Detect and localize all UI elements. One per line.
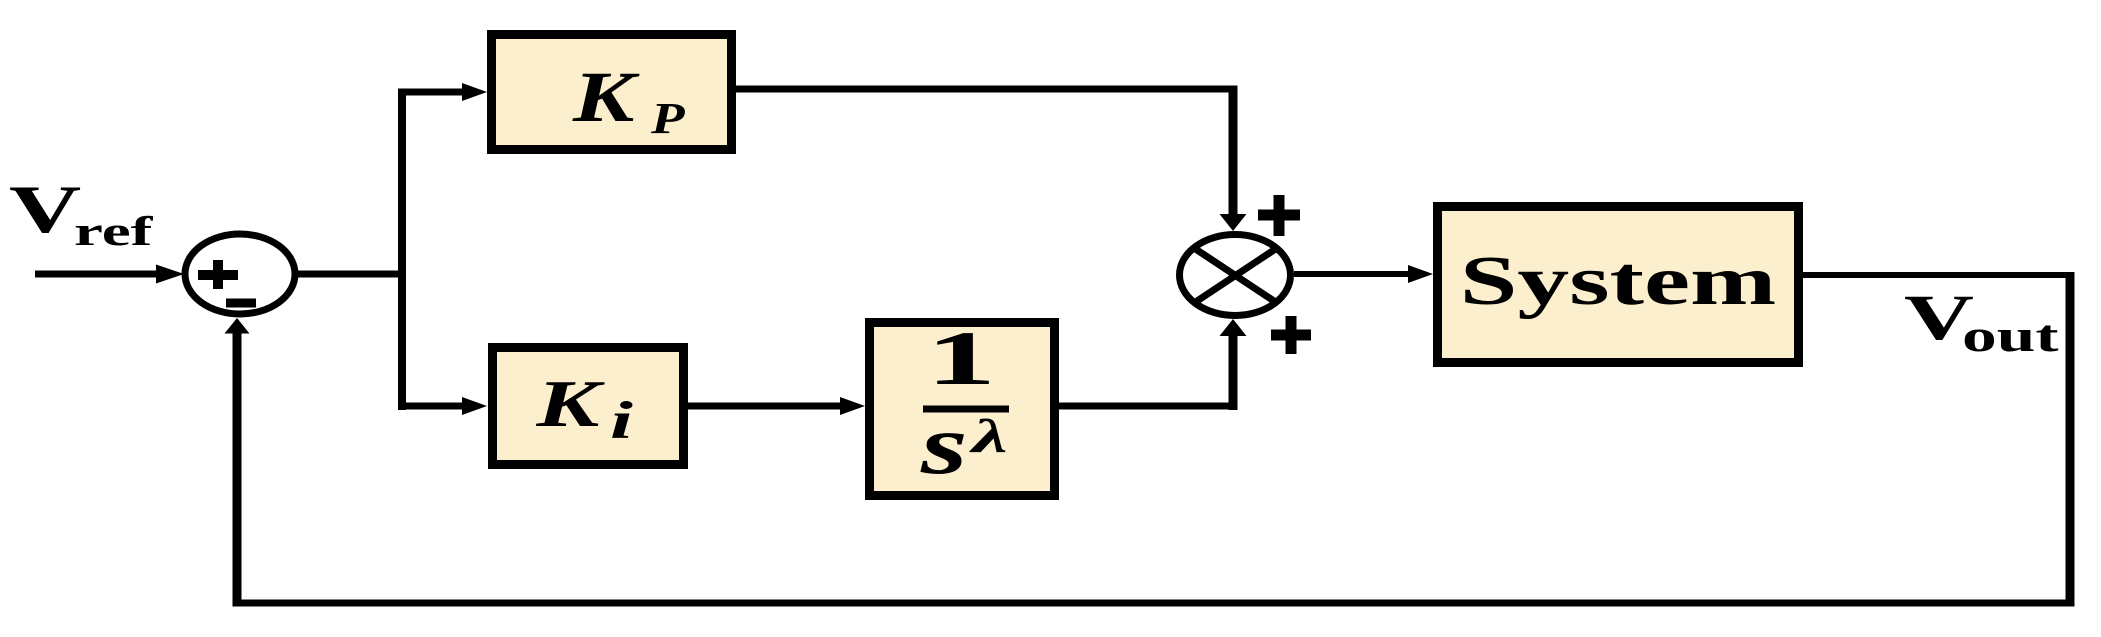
svg-text:P: P	[650, 94, 685, 143]
svg-text:V: V	[9, 172, 81, 247]
wire KP to multiplier	[736, 86, 1238, 218]
block System	[1438, 207, 1799, 363]
wire feedback bottom	[233, 600, 2075, 607]
wire integrator to multiplier	[1059, 333, 1238, 410]
svg-text:System: System	[1460, 242, 1777, 320]
arrowhead into multiplier bottom	[1220, 319, 1247, 336]
block KP	[492, 35, 732, 150]
wire feedback right vertical	[2066, 272, 2075, 607]
arrowhead into Ki	[462, 397, 487, 415]
svg-text:1: 1	[926, 316, 996, 401]
arrowhead into integrator	[840, 397, 865, 415]
svg-text:i: i	[610, 390, 633, 449]
wire System to output corner	[1803, 272, 2074, 278]
block Ki	[493, 348, 684, 465]
svg-text:λ: λ	[968, 410, 1007, 463]
summing junction S1	[185, 234, 295, 314]
arrowhead into summer	[156, 265, 184, 284]
svg-text:ref: ref	[74, 208, 153, 254]
node branch vertical	[398, 89, 406, 411]
svg-text:out: out	[1962, 310, 2059, 361]
wire branch to Ki	[398, 403, 463, 410]
wire feedback left vertical	[233, 331, 242, 607]
wire multiplier to System	[1294, 271, 1408, 277]
arrowhead into multiplier top	[1220, 214, 1247, 231]
label Vout	[1904, 281, 2059, 361]
plus sign bottom input	[1271, 316, 1311, 354]
svg-text:K: K	[572, 57, 640, 137]
arrowhead into System	[1408, 265, 1433, 283]
svg-text:s: s	[920, 398, 968, 492]
wire input to summer	[35, 271, 160, 278]
wire summer to branch node	[294, 271, 402, 278]
arrowhead into KP	[462, 83, 487, 101]
wire branch to KP	[398, 89, 463, 96]
label Vref	[9, 172, 153, 254]
plus sign top input	[1258, 195, 1300, 236]
multiplier junction M1	[1180, 235, 1291, 316]
wire Ki to integrator	[688, 403, 840, 410]
block integrator 1/s^lambda	[870, 316, 1055, 496]
arrowhead into summer bottom	[225, 318, 250, 334]
svg-text:K: K	[535, 366, 605, 440]
